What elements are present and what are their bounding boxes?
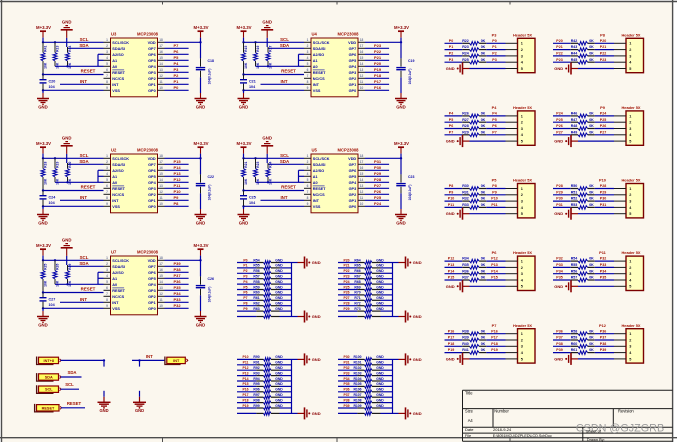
resistor R38 row P16 (P7) xyxy=(445,329,506,335)
svg-text:MCP23008: MCP23008 xyxy=(338,148,360,153)
svg-text:VSS: VSS xyxy=(112,307,120,311)
svg-text:INT: INT xyxy=(173,359,180,363)
resistor R15 pull-up xyxy=(242,42,249,74)
svg-text:GND: GND xyxy=(376,404,384,408)
svg-text:A0: A0 xyxy=(313,65,318,69)
svg-text:GND: GND xyxy=(99,408,108,413)
svg-text:3: 3 xyxy=(521,127,523,131)
resistor R57 net P3 xyxy=(237,275,292,281)
svg-text:A2/SO: A2/SO xyxy=(112,271,123,275)
wire gnd stem U2 xyxy=(66,146,68,163)
svg-text:P19: P19 xyxy=(242,404,248,408)
resistor R108 net P38 xyxy=(338,398,393,404)
svg-text:P6: P6 xyxy=(492,250,498,255)
IC U3 MCP23008 xyxy=(111,32,159,97)
power port M+3.3V (left of U2) xyxy=(36,141,51,147)
svg-text:U7: U7 xyxy=(111,250,117,255)
resistor R61 net P7 xyxy=(237,296,292,302)
svg-text:P23: P23 xyxy=(343,275,349,279)
svg-text:GND: GND xyxy=(413,411,422,416)
svg-text:4: 4 xyxy=(106,172,108,176)
power port M+3.3V (right of U2) xyxy=(194,141,209,147)
svg-text:GND: GND xyxy=(413,314,422,319)
resistor R53 row P31 (P10) xyxy=(553,203,614,209)
svg-text:P22: P22 xyxy=(600,52,606,56)
wire array gnd bus xyxy=(292,359,298,413)
svg-text:P9: P9 xyxy=(449,190,453,194)
svg-text:5: 5 xyxy=(106,280,108,284)
svg-text:P1: P1 xyxy=(174,79,180,84)
svg-text:GND: GND xyxy=(275,393,283,397)
svg-text:R98: R98 xyxy=(253,398,259,402)
svg-text:P30: P30 xyxy=(343,355,349,359)
svg-text:GP5: GP5 xyxy=(349,59,357,63)
svg-text:GND: GND xyxy=(239,220,249,225)
svg-text:GND: GND xyxy=(275,285,283,289)
svg-text:P33: P33 xyxy=(556,263,562,267)
svg-text:P19: P19 xyxy=(491,348,497,352)
svg-text:GND: GND xyxy=(275,280,283,284)
resistor R104 net P34 xyxy=(338,377,393,383)
svg-text:P36: P36 xyxy=(556,329,562,333)
svg-text:SCL/SCK: SCL/SCK xyxy=(313,41,330,45)
svg-text:R33: R33 xyxy=(462,203,469,207)
svg-text:R108: R108 xyxy=(353,398,361,402)
resistor R67 net P23 xyxy=(338,275,393,281)
wire right rail to ground U3 xyxy=(200,77,202,98)
svg-text:10: 10 xyxy=(360,86,364,90)
svg-text:10: 10 xyxy=(159,304,163,308)
svg-text:P0: P0 xyxy=(492,39,496,43)
svg-text:R32: R32 xyxy=(462,197,469,201)
svg-text:P25: P25 xyxy=(374,195,382,200)
svg-text:0K: 0K xyxy=(589,52,594,56)
svg-text:0K: 0K xyxy=(481,263,486,267)
wire right rail to ground U4 xyxy=(400,77,402,98)
power port M+3.3V (left of U5) xyxy=(237,141,252,147)
resistor R68 net P24 xyxy=(338,280,393,286)
svg-text:C27: C27 xyxy=(49,297,56,301)
wires GP nets with labels U2 xyxy=(165,159,189,206)
svg-text:INT: INT xyxy=(112,301,119,305)
power port M+3.3V (left of U4) xyxy=(237,25,252,31)
svg-text:GP1: GP1 xyxy=(349,83,357,87)
title block text xyxy=(465,390,634,442)
svg-text:GND: GND xyxy=(554,284,563,289)
wire SDA net U5 xyxy=(268,159,305,164)
resistor R99 net P19 xyxy=(237,404,292,410)
svg-text:R61: R61 xyxy=(253,296,259,300)
resistor R42 row P20 (P8) xyxy=(553,39,614,45)
svg-text:GP3: GP3 xyxy=(349,71,357,75)
svg-text:5: 5 xyxy=(629,357,631,361)
svg-text:GP2: GP2 xyxy=(148,193,156,197)
svg-text:GND: GND xyxy=(376,366,384,370)
svg-text:2: 2 xyxy=(629,338,631,342)
svg-text:P24: P24 xyxy=(556,112,562,116)
svg-text:P2: P2 xyxy=(492,52,496,56)
ground GND (P8 pin5) xyxy=(554,63,614,75)
svg-text:GND: GND xyxy=(413,357,422,362)
resistor R96 net P16 xyxy=(237,388,292,394)
wire gnd stem U3 xyxy=(66,30,68,47)
svg-text:P17: P17 xyxy=(448,336,454,340)
svg-text:M+3.3V: M+3.3V xyxy=(36,243,51,248)
svg-text:R54: R54 xyxy=(253,258,259,262)
svg-text:18: 18 xyxy=(159,38,163,42)
wire right rail U7 xyxy=(200,249,202,276)
svg-text:5: 5 xyxy=(521,67,523,71)
svg-text:C20: C20 xyxy=(49,79,56,83)
pins right U7 18,17-10 xyxy=(158,256,165,308)
svg-text:P4: P4 xyxy=(243,280,247,284)
svg-text:0K: 0K xyxy=(481,124,486,128)
svg-text:GP4: GP4 xyxy=(148,181,156,185)
wire right rail U2 xyxy=(200,147,202,174)
svg-text:INT: INT xyxy=(313,83,320,87)
resistor R14 pull-down xyxy=(66,45,73,68)
svg-text:P21: P21 xyxy=(343,264,349,268)
ground GND (array bottom) xyxy=(399,311,422,323)
svg-text:GP4: GP4 xyxy=(148,65,156,69)
ground GND (bottom-left of U3) xyxy=(37,99,49,110)
svg-text:R47: R47 xyxy=(571,118,578,122)
svg-text:3: 3 xyxy=(629,345,631,349)
port INT+8 xyxy=(37,357,61,365)
svg-text:GND: GND xyxy=(446,139,455,144)
svg-text:SCL: SCL xyxy=(280,37,289,42)
svg-text:GND: GND xyxy=(275,264,283,268)
svg-text:18: 18 xyxy=(159,154,163,158)
svg-text:R40: R40 xyxy=(462,342,469,346)
resistor R101 net P31 xyxy=(338,361,393,367)
resistor R93 net P13 xyxy=(237,371,292,377)
svg-text:GND: GND xyxy=(62,19,72,24)
svg-text:M+3.3V: M+3.3V xyxy=(194,141,209,146)
svg-text:GND: GND xyxy=(275,296,283,300)
svg-text:P29: P29 xyxy=(343,307,349,311)
svg-text:P7: P7 xyxy=(492,323,497,328)
svg-text:P25: P25 xyxy=(343,285,349,289)
svg-text:7: 7 xyxy=(307,190,309,194)
svg-text:GND: GND xyxy=(376,382,384,386)
svg-text:P0: P0 xyxy=(243,258,247,262)
svg-text:A0: A0 xyxy=(112,283,117,287)
svg-text:R34: R34 xyxy=(462,257,469,261)
resistor R28 row P6 (P4) xyxy=(445,124,506,130)
svg-text:3: 3 xyxy=(629,54,631,58)
svg-text:P16: P16 xyxy=(448,329,454,333)
svg-text:12: 12 xyxy=(159,292,163,296)
svg-text:P5: P5 xyxy=(174,55,180,60)
svg-text:P1: P1 xyxy=(243,264,247,268)
svg-text:0K: 0K xyxy=(589,112,594,116)
pins P8 1-5 xyxy=(614,43,626,68)
svg-text:0K: 0K xyxy=(589,348,594,352)
svg-text:SCL/SCK: SCL/SCK xyxy=(112,41,129,45)
svg-text:P2: P2 xyxy=(449,52,453,56)
svg-text:R36: R36 xyxy=(462,269,469,273)
svg-text:R13: R13 xyxy=(56,45,60,51)
svg-text:R42: R42 xyxy=(571,39,578,43)
svg-text:GP3: GP3 xyxy=(148,187,156,191)
svg-text:2: 2 xyxy=(521,266,523,270)
power port M+3.3V (right of U3) xyxy=(194,25,209,31)
svg-text:R16: R16 xyxy=(256,45,260,51)
pins left U3 1-9 xyxy=(104,38,111,90)
svg-text:Header 5X: Header 5X xyxy=(621,250,640,255)
resistor R58 row P36 (P12) xyxy=(553,329,614,335)
svg-text:2: 2 xyxy=(629,121,631,125)
svg-text:16: 16 xyxy=(159,268,163,272)
svg-text:R103: R103 xyxy=(353,371,361,375)
resistor R49 row P27 (P9) xyxy=(553,130,614,136)
svg-text:P26: P26 xyxy=(556,124,562,128)
svg-text:U2: U2 xyxy=(111,148,117,153)
resistor R27 row P5 (P4) xyxy=(445,118,506,124)
svg-text:Date: Date xyxy=(465,427,474,432)
svg-text:1: 1 xyxy=(307,38,309,42)
svg-text:9: 9 xyxy=(106,86,108,90)
svg-text:6: 6 xyxy=(106,68,108,72)
svg-text:GND: GND xyxy=(554,356,563,361)
svg-text:GND: GND xyxy=(312,411,321,416)
wire power stem left U2 xyxy=(42,147,44,159)
svg-text:2018-9-24: 2018-9-24 xyxy=(493,427,512,432)
svg-text:P13: P13 xyxy=(448,263,454,267)
resistor R55 net P1 xyxy=(237,264,292,270)
svg-text:5: 5 xyxy=(106,178,108,182)
svg-text:P4: P4 xyxy=(492,112,496,116)
svg-text:GND: GND xyxy=(376,302,384,306)
resistor R41 row P19 (P7) xyxy=(445,348,506,354)
svg-text:0K: 0K xyxy=(481,184,486,188)
svg-text:10K: 10K xyxy=(56,280,60,287)
svg-text:P27: P27 xyxy=(374,183,382,188)
svg-text:13: 13 xyxy=(360,184,364,188)
svg-text:GND: GND xyxy=(376,296,384,300)
svg-text:R59: R59 xyxy=(571,336,578,340)
svg-text:6: 6 xyxy=(106,286,108,290)
svg-text:10K: 10K xyxy=(44,62,48,69)
svg-text:1: 1 xyxy=(629,114,631,118)
svg-text:A1: A1 xyxy=(313,175,318,179)
svg-text:P15: P15 xyxy=(174,159,182,164)
wire left rail to ground U3 xyxy=(42,90,44,98)
wire SDA net U3 xyxy=(67,43,104,48)
svg-text:U4: U4 xyxy=(312,32,318,37)
svg-text:P32: P32 xyxy=(600,257,606,261)
svg-text:GP0: GP0 xyxy=(148,89,156,93)
svg-text:U3: U3 xyxy=(111,32,117,37)
svg-text:R35: R35 xyxy=(462,263,469,267)
svg-text:R100: R100 xyxy=(353,355,361,359)
resistor R25 pull-up xyxy=(41,260,48,292)
svg-text:GND: GND xyxy=(275,398,283,402)
svg-text:0K: 0K xyxy=(589,190,594,194)
svg-text:2: 2 xyxy=(106,160,108,164)
svg-text:RESET: RESET xyxy=(81,185,96,190)
svg-text:GP4: GP4 xyxy=(349,65,357,69)
svg-text:10K: 10K xyxy=(68,280,72,287)
svg-text:R102: R102 xyxy=(353,366,361,370)
svg-text:3: 3 xyxy=(521,54,523,58)
svg-text:P7: P7 xyxy=(492,130,496,134)
svg-text:17: 17 xyxy=(159,44,163,48)
svg-text:GND: GND xyxy=(38,220,48,225)
svg-text:5: 5 xyxy=(629,67,631,71)
svg-text:R64: R64 xyxy=(354,258,360,262)
wire left rail to ground U7 xyxy=(42,308,44,316)
svg-text:NC/CS: NC/CS xyxy=(313,193,325,197)
svg-text:8: 8 xyxy=(106,80,108,84)
svg-text:P13: P13 xyxy=(491,263,497,267)
svg-text:0K: 0K xyxy=(589,269,594,273)
ground GND (array top) xyxy=(399,353,422,365)
capacitor C18 104(0.1uF) xyxy=(196,58,214,84)
svg-text:Header 5X: Header 5X xyxy=(621,178,640,183)
pins P11 1-5 xyxy=(614,261,626,286)
svg-text:15: 15 xyxy=(159,56,163,60)
svg-text:R29: R29 xyxy=(68,263,72,269)
wires GP nets with labels U7 xyxy=(165,261,189,308)
svg-text:R57: R57 xyxy=(571,276,578,280)
resistor R105 net P35 xyxy=(338,382,393,388)
resistor R48 row P26 (P9) xyxy=(553,124,614,130)
svg-text:A1: A1 xyxy=(313,59,318,63)
wire VSS net U7 xyxy=(42,307,104,309)
wire RESET net U7 xyxy=(42,287,104,294)
connector P3 Header 5X xyxy=(492,32,535,72)
resistor R33 row P11 (P5) xyxy=(445,203,506,209)
wire RESET net U4 xyxy=(242,69,304,76)
wire SCL net U5 xyxy=(244,153,305,160)
svg-text:1: 1 xyxy=(521,260,523,264)
wire right rail U3 xyxy=(200,31,202,58)
svg-text:0K: 0K xyxy=(481,52,486,56)
svg-text:NC/CS: NC/CS xyxy=(112,193,124,197)
svg-text:P31: P31 xyxy=(556,203,562,207)
svg-text:12: 12 xyxy=(360,74,364,78)
svg-text:GND: GND xyxy=(135,408,144,413)
svg-text:GP6: GP6 xyxy=(148,271,156,275)
svg-text:0K: 0K xyxy=(481,197,486,201)
svg-text:3: 3 xyxy=(521,200,523,204)
svg-text:GND: GND xyxy=(376,264,384,268)
svg-text:16: 16 xyxy=(360,166,364,170)
svg-text:8: 8 xyxy=(307,80,309,84)
ground GND (top of U4) xyxy=(261,19,273,29)
svg-text:SCL: SCL xyxy=(80,255,89,260)
svg-text:MCP23008: MCP23008 xyxy=(137,148,159,153)
svg-text:0K: 0K xyxy=(589,184,594,188)
svg-text:R91: R91 xyxy=(253,361,259,365)
wire INT net U7 xyxy=(60,297,104,302)
svg-text:9: 9 xyxy=(106,202,108,206)
svg-text:0K: 0K xyxy=(589,342,594,346)
svg-text:R72: R72 xyxy=(354,302,360,306)
svg-text:0K: 0K xyxy=(589,197,594,201)
svg-text:P22: P22 xyxy=(556,52,562,56)
svg-text:P9: P9 xyxy=(492,190,496,194)
svg-text:P29: P29 xyxy=(600,190,606,194)
svg-text:P10: P10 xyxy=(599,178,606,183)
port INT (output) xyxy=(165,357,188,365)
svg-text:INT: INT xyxy=(146,354,153,359)
svg-text:0K: 0K xyxy=(589,263,594,267)
svg-text:P12: P12 xyxy=(448,257,454,261)
svg-text:SCL/SCK: SCL/SCK xyxy=(313,157,330,161)
svg-text:0K: 0K xyxy=(589,39,594,43)
svg-text:M+3.3V: M+3.3V xyxy=(394,25,409,30)
svg-text:104(0.1uF): 104(0.1uF) xyxy=(208,287,212,303)
svg-text:GND: GND xyxy=(62,237,72,242)
svg-text:E:\8051MCU\DZPLED\LCD.SchDoc: E:\8051MCU\DZPLED\LCD.SchDoc xyxy=(493,434,552,438)
svg-text:GND: GND xyxy=(275,382,283,386)
svg-text:SDA: SDA xyxy=(67,370,76,375)
svg-text:P16: P16 xyxy=(374,85,382,90)
svg-text:P29: P29 xyxy=(556,190,562,194)
resistor R18 pull-up xyxy=(41,158,48,190)
svg-text:VSS: VSS xyxy=(112,205,120,209)
resistor R66 net P22 xyxy=(338,269,393,275)
svg-text:INT: INT xyxy=(80,195,87,200)
svg-text:P12: P12 xyxy=(242,366,248,370)
svg-text:R105: R105 xyxy=(353,382,361,386)
svg-text:14: 14 xyxy=(159,280,163,284)
svg-text:P18: P18 xyxy=(374,73,382,78)
wires GP nets with labels U5 xyxy=(365,159,389,206)
svg-text:15: 15 xyxy=(360,56,364,60)
svg-text:0K: 0K xyxy=(481,336,486,340)
svg-text:10K: 10K xyxy=(56,178,60,185)
resistor R63 net P9 xyxy=(237,307,292,313)
svg-text:MCP23008: MCP23008 xyxy=(137,250,159,255)
resistor R62 net P8 xyxy=(237,302,292,308)
svg-text:10K: 10K xyxy=(244,62,248,69)
svg-text:P11: P11 xyxy=(491,203,497,207)
svg-text:GND: GND xyxy=(275,302,283,306)
svg-text:GP3: GP3 xyxy=(148,71,156,75)
svg-text:Header 5X: Header 5X xyxy=(621,32,640,37)
pins P7 1-5 xyxy=(506,334,518,359)
svg-text:P32: P32 xyxy=(174,303,182,308)
svg-text:P14: P14 xyxy=(448,269,454,273)
svg-text:R58: R58 xyxy=(253,280,259,284)
capacitor C21 104 xyxy=(240,75,256,91)
svg-text:P21: P21 xyxy=(556,45,562,49)
svg-text:GP4: GP4 xyxy=(349,181,357,185)
wire right rail U4 xyxy=(400,31,402,58)
svg-text:R59: R59 xyxy=(253,285,259,289)
wire A-pin strap U4 xyxy=(256,54,305,67)
svg-text:SDA/SI: SDA/SI xyxy=(112,47,125,51)
svg-text:14: 14 xyxy=(360,178,364,182)
svg-text:8: 8 xyxy=(106,196,108,200)
svg-text:12: 12 xyxy=(159,190,163,194)
svg-text:SDA/SI: SDA/SI xyxy=(112,265,125,269)
svg-text:GP3: GP3 xyxy=(148,289,156,293)
svg-text:104: 104 xyxy=(49,85,56,89)
resistor R55 row P33 (P11) xyxy=(553,263,614,269)
power port M+3.3V (left of U7) xyxy=(36,243,51,249)
svg-text:GND: GND xyxy=(239,104,249,109)
wire array gnd bus xyxy=(393,263,399,317)
svg-text:VSS: VSS xyxy=(313,89,321,93)
wire SCL net U4 xyxy=(244,37,305,44)
svg-text:P10: P10 xyxy=(242,355,248,359)
svg-text:14: 14 xyxy=(159,178,163,182)
